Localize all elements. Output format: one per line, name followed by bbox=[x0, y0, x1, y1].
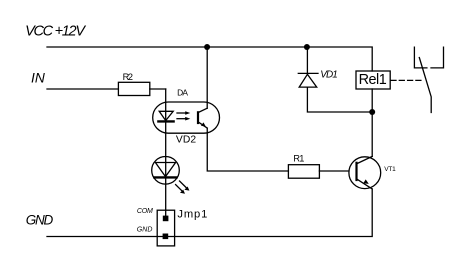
svg-text:DA: DA bbox=[177, 88, 188, 98]
svg-text:GND: GND bbox=[26, 212, 54, 227]
svg-text:Jmp1: Jmp1 bbox=[177, 209, 207, 221]
svg-text:IN: IN bbox=[31, 70, 45, 85]
svg-text:R1: R1 bbox=[293, 153, 304, 163]
svg-text:VT1: VT1 bbox=[384, 166, 396, 173]
svg-text:R2: R2 bbox=[123, 72, 133, 82]
svg-text:VD1: VD1 bbox=[320, 70, 338, 81]
svg-text:VCC +12V: VCC +12V bbox=[25, 24, 86, 40]
svg-text:VD2: VD2 bbox=[176, 135, 196, 146]
svg-text:Rel1: Rel1 bbox=[359, 72, 387, 88]
svg-text:COM: COM bbox=[137, 208, 153, 215]
svg-text:GND: GND bbox=[137, 226, 153, 233]
